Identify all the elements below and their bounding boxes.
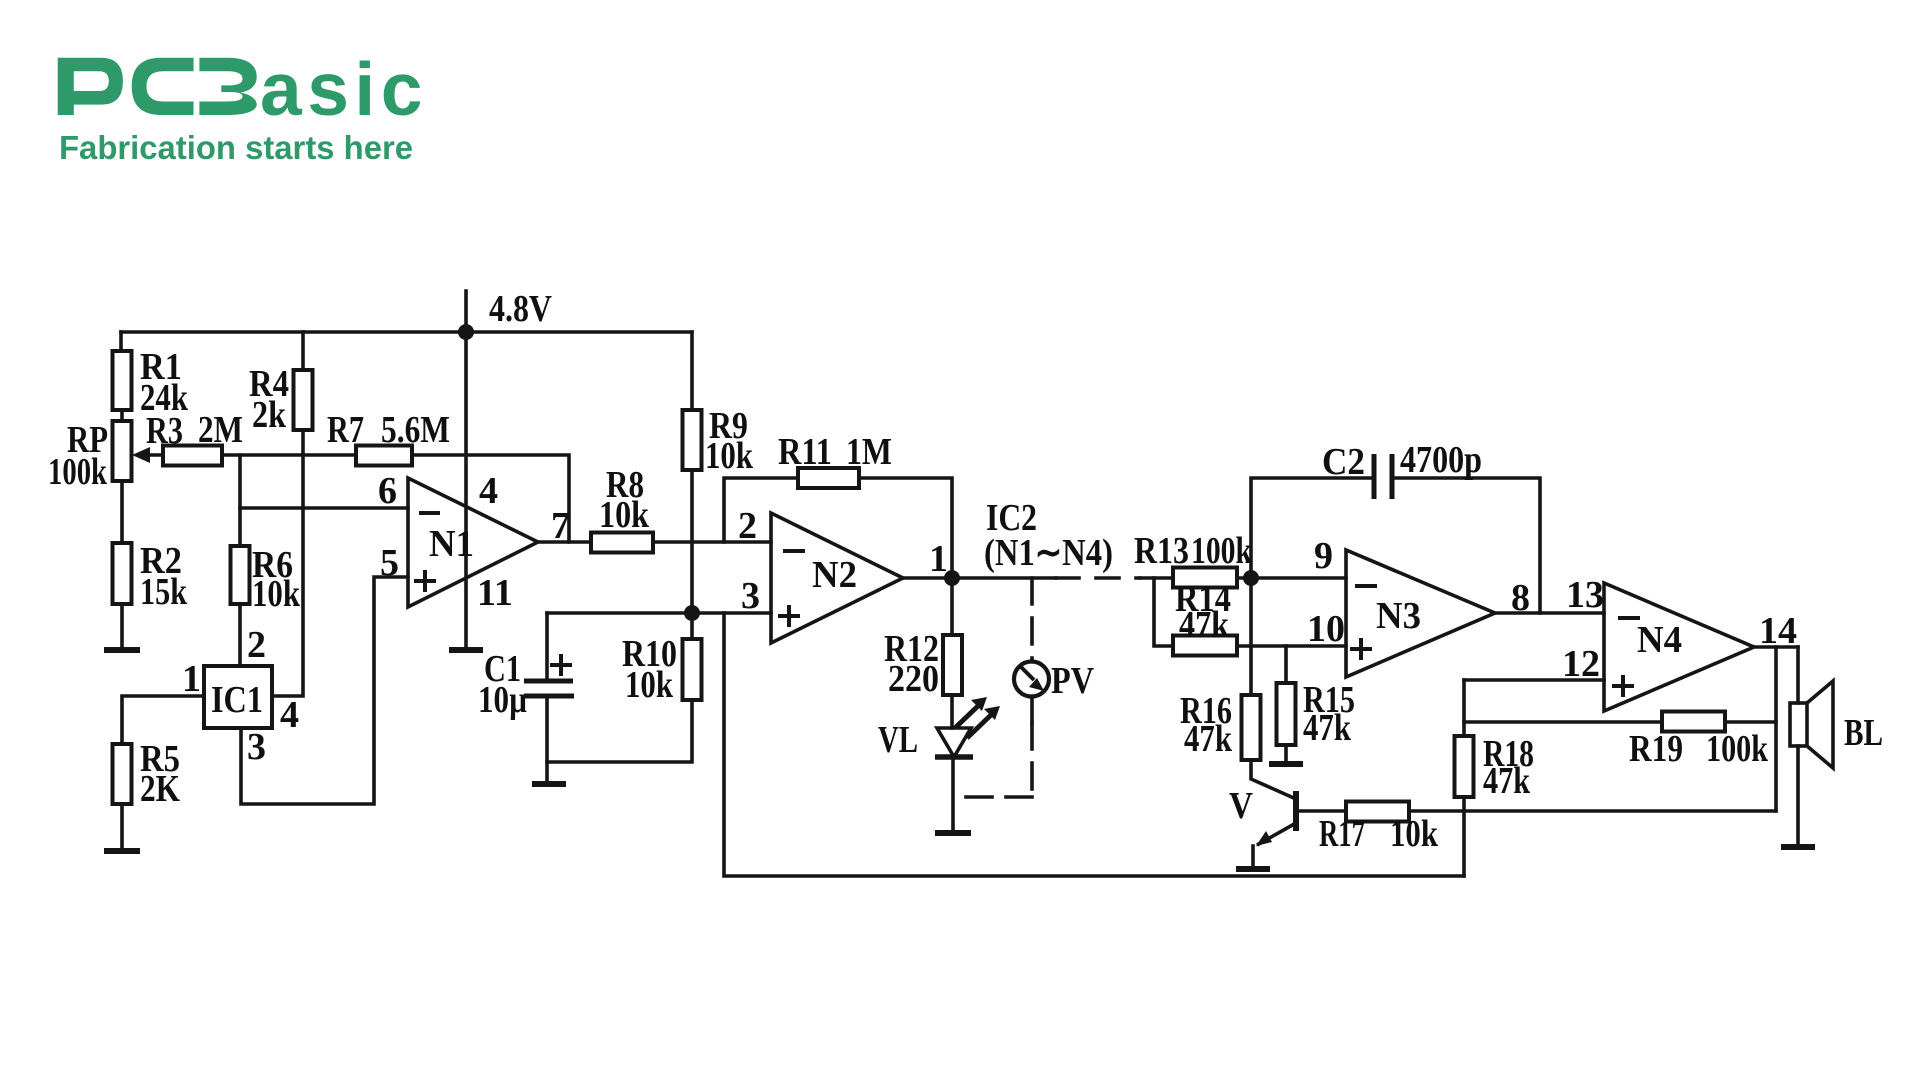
svg-text:10k: 10k [599, 494, 650, 536]
wire N2 feedback via R11 [724, 478, 798, 542]
resistor R19 100k [1662, 712, 1725, 732]
wire N1 power pin4-11 [464, 332, 468, 647]
wire rail to R4 [301, 332, 305, 370]
wire N2 output node1 [903, 576, 1056, 580]
wire pin3 node [547, 611, 771, 615]
svg-text:10k: 10k [705, 435, 754, 477]
wire bottom feedback long [724, 613, 1464, 876]
resistor R13 100k [1173, 568, 1237, 588]
op-amp N2 [771, 513, 903, 643]
svg-text:8: 8 [1511, 577, 1530, 619]
svg-text:N4: N4 [1637, 619, 1682, 661]
wire R19 right [1725, 720, 1776, 724]
potentiometer RP wiper arrow [146, 453, 163, 457]
wire IC1 pin1 to R5 [122, 696, 204, 744]
svg-text:asic: asic [260, 47, 428, 131]
LED VL arrows [955, 705, 992, 738]
resistor R7 5.6M [356, 446, 412, 466]
svg-text:10k: 10k [1390, 813, 1439, 855]
wire R11 to output [859, 478, 952, 578]
svg-text:2K: 2K [140, 768, 180, 810]
svg-text:(N1∼N4): (N1∼N4) [984, 532, 1113, 574]
plus N2 [778, 605, 800, 627]
wire R9 to node [690, 470, 694, 613]
plus N3 [1350, 638, 1372, 660]
svg-text:14: 14 [1759, 610, 1797, 652]
wire node1 to R12 [950, 578, 954, 635]
svg-text:12: 12 [1562, 643, 1600, 685]
minus N3 [1355, 584, 1377, 588]
resistor R6 10k [231, 546, 250, 604]
wire BL to ground [1796, 746, 1800, 844]
wire +4.8V top rail [121, 330, 692, 334]
svg-text:R7: R7 [327, 409, 364, 451]
wire pin14 to BL [1796, 647, 1800, 703]
wire R4 to IC1 pin4 [272, 430, 303, 696]
svg-text:BL: BL [1844, 712, 1883, 754]
ground under R2 [104, 647, 140, 653]
wire node to C2 left [1251, 478, 1372, 578]
svg-text:R13: R13 [1134, 530, 1189, 572]
wire N3 out to N4 pin13 [1495, 611, 1604, 615]
wire rail corner to R9 [690, 332, 694, 410]
svg-text:2M: 2M [198, 409, 243, 451]
svg-text:10µ: 10µ [478, 679, 527, 721]
wire pin12 column to R18 [1462, 680, 1466, 736]
wire C1 top [545, 613, 549, 681]
wire R8 to N2 pin2 [653, 540, 771, 544]
wire emitter to ground [1251, 846, 1255, 866]
resistor R3 2M [163, 446, 222, 466]
svg-text:220: 220 [888, 658, 939, 700]
svg-text:2: 2 [247, 624, 266, 666]
ground under R5 [104, 848, 140, 854]
svg-text:47k: 47k [1483, 760, 1531, 802]
wire base to R17 [1296, 809, 1346, 813]
resistor R8 10k [591, 533, 653, 553]
resistor R17 10k [1346, 802, 1409, 822]
resistor R9 10k [683, 410, 702, 470]
svg-text:N1: N1 [429, 523, 474, 565]
svg-text:V: V [1229, 785, 1253, 827]
svg-text:10k: 10k [252, 573, 301, 615]
svg-text:3: 3 [741, 575, 760, 617]
svg-text:4700p: 4700p [1400, 439, 1482, 481]
svg-text:2: 2 [738, 505, 757, 547]
potentiometer RP 100k [113, 421, 132, 481]
wire node to R10 [690, 613, 694, 639]
resistor R15 47k [1277, 683, 1296, 745]
ground under BL [1781, 844, 1815, 850]
svg-text:R11: R11 [778, 431, 832, 473]
wire R5 to ground [120, 804, 124, 848]
svg-text:47k: 47k [1179, 604, 1230, 646]
svg-text:IC1: IC1 [211, 679, 263, 721]
svg-text:100k: 100k [1191, 530, 1253, 572]
ground under VL [935, 830, 971, 836]
svg-text:Fabrication starts here: Fabrication starts here [59, 129, 413, 166]
ground transistor emitter [1236, 866, 1270, 872]
resistor R18 47k [1455, 736, 1474, 797]
wire R13 R14 left bracket [1154, 578, 1173, 646]
wire N4 pin12 [1464, 678, 1604, 682]
resistor R2 15k [113, 543, 132, 604]
plus N4 [1612, 675, 1634, 697]
LED VL [937, 728, 971, 757]
svg-text:9: 9 [1314, 535, 1333, 577]
wire dashed IC2 link [1056, 576, 1140, 580]
svg-text:N2: N2 [812, 554, 857, 596]
wire pin14 drop to R19 [1774, 647, 1778, 811]
resistor R16 47k [1242, 695, 1261, 760]
resistor R4 2k [294, 370, 313, 430]
svg-text:4.8V: 4.8V [489, 288, 552, 330]
svg-text:100k: 100k [1706, 728, 1769, 770]
wire R14 to N3 pin10 [1237, 644, 1346, 648]
svg-text:C2: C2 [1322, 441, 1365, 483]
junction node dots [458, 324, 474, 340]
capacitor C2 plates [1374, 454, 1392, 499]
svg-text:1M: 1M [846, 431, 892, 473]
svg-text:7: 7 [551, 505, 570, 547]
resistor R14 47k [1173, 636, 1237, 656]
svg-text:11: 11 [477, 572, 513, 614]
wire link to R13 [1140, 576, 1173, 580]
meter PV [1014, 662, 1049, 697]
svg-text:5.6M: 5.6M [381, 409, 450, 451]
resistor R11 1M [798, 468, 859, 488]
resistor R5 2K [113, 744, 132, 804]
resistor R1 24k [113, 351, 132, 410]
resistor R10 10k [683, 639, 702, 700]
wire dashed PV bottom [1030, 723, 1034, 797]
op-amp N3 [1346, 550, 1495, 677]
svg-text:VL: VL [878, 719, 918, 761]
wire pin6 feed [240, 506, 408, 510]
transistor V [1293, 791, 1299, 831]
svg-text:10: 10 [1307, 608, 1345, 650]
wire R18 bottom to pin14 column [1464, 809, 1776, 813]
IC1 box [204, 666, 272, 728]
ground under C1 [532, 781, 566, 787]
wire R15 to ground [1284, 745, 1288, 761]
wire R12 to VL [950, 695, 954, 728]
svg-text:N3: N3 [1376, 595, 1421, 637]
wire RP to R2 [120, 481, 124, 543]
wire R2 to ground [120, 604, 124, 648]
wire dashed PV return [953, 795, 1032, 799]
svg-text:15k: 15k [140, 571, 188, 613]
wire N1 output to R8 [538, 540, 591, 544]
op-amp N4 [1604, 583, 1754, 711]
wire N4 output pin14 [1754, 645, 1798, 649]
svg-text:6: 6 [378, 470, 397, 512]
wire C2 right to N3 out [1394, 478, 1540, 613]
ground under R15 [1269, 761, 1303, 767]
speaker BL [1790, 681, 1833, 768]
minus N1 [419, 511, 440, 515]
wire R18 bottom column [1462, 797, 1466, 876]
ground N1 pin11 [449, 647, 483, 653]
svg-text:R3: R3 [146, 410, 183, 452]
wire node R3-R7 [222, 453, 356, 457]
minus N2 [783, 549, 805, 553]
capacitor C1 plates [524, 681, 574, 696]
svg-text:R17: R17 [1319, 813, 1365, 855]
op-amp N1 [408, 478, 538, 607]
logo PCBasic wordmark [58, 47, 428, 131]
plus C1 [550, 654, 572, 676]
wire PV bottom solid [1030, 697, 1034, 723]
svg-text:13: 13 [1566, 574, 1604, 616]
svg-text:1: 1 [182, 658, 201, 700]
wire rail to R1 [119, 332, 123, 351]
wire R6 to IC1 pin2 [238, 604, 242, 666]
wire 4.8V stub [464, 291, 468, 332]
svg-text:5: 5 [380, 542, 399, 584]
wire VL to ground [951, 757, 955, 830]
wire R19 left [1464, 720, 1662, 724]
svg-text:PV: PV [1051, 660, 1094, 702]
svg-text:10k: 10k [625, 664, 674, 706]
wire node to R16 [1249, 578, 1253, 695]
svg-text:4: 4 [280, 694, 299, 736]
svg-text:2k: 2k [252, 394, 287, 436]
svg-text:R19: R19 [1629, 728, 1683, 770]
svg-text:100k: 100k [48, 451, 108, 493]
wire node to R6 [238, 455, 242, 546]
svg-text:4: 4 [479, 470, 498, 512]
wire R1 to RP [120, 410, 124, 421]
wire R7 to output feedback [412, 455, 569, 542]
wire R17 to R18 column [1409, 809, 1464, 813]
wire R16 to transistor collector [1251, 760, 1296, 799]
wire R13 to N3 pin9 [1237, 576, 1346, 580]
wire R15 top [1284, 646, 1288, 683]
svg-text:1: 1 [929, 538, 948, 580]
svg-text:47k: 47k [1184, 718, 1233, 760]
plus N1 [414, 570, 436, 592]
minus N4 [1618, 616, 1640, 620]
svg-text:3: 3 [247, 726, 266, 768]
resistor R12 220 [943, 635, 962, 695]
wire R10 bottom to C1 [547, 700, 692, 762]
svg-text:47k: 47k [1303, 707, 1352, 749]
wire C1 to ground [545, 696, 549, 781]
wire N1 pin5 to IC1 pin3 [241, 577, 408, 804]
wire dashed PV top [1030, 578, 1034, 661]
